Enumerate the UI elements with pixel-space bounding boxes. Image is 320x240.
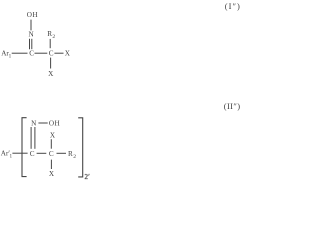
svg-text:C: C [30,150,35,158]
bond C2-X right [54,52,63,54]
svg-text:2′: 2′ [85,173,91,180]
svg-text:1: 1 [10,154,13,160]
svg-text:2: 2 [73,154,76,160]
bond N-OH horizontal [38,122,47,124]
bond C1-C2 [35,52,48,54]
bond Ar1-C [12,52,28,54]
bond Ar'1-C (crosses bracket) [12,152,27,154]
svg-text:N: N [31,120,37,128]
double bond N=C [29,39,31,49]
svg-text:N: N [29,31,35,39]
svg-text:1: 1 [9,54,12,60]
svg-text:OH: OH [27,11,38,19]
bond C1-C2 (structure II) [37,152,47,154]
svg-text:(II″): (II″) [224,101,240,111]
bond X-C2 vertical (structure II) [50,139,52,149]
svg-text:X: X [48,70,54,78]
bond C2-X down (structure II) [50,160,52,169]
left bracket [22,118,27,177]
svg-text:OH: OH [49,120,60,128]
bond R2-C2 vertical [49,39,51,48]
right bracket [78,118,83,177]
svg-text:C: C [29,50,34,58]
svg-text:C: C [49,50,54,58]
svg-text:X: X [50,131,56,139]
double bond C=N (structure II) [30,127,32,149]
svg-text:2: 2 [52,34,55,40]
svg-text:X: X [65,50,71,58]
svg-text:(I″): (I″) [225,1,240,11]
svg-text:X: X [49,170,55,178]
bond C2-X down [50,58,52,69]
bond OH-N vertical [30,20,32,31]
svg-text:C: C [49,150,54,158]
bond C2-R2 (structure II) [57,152,67,154]
